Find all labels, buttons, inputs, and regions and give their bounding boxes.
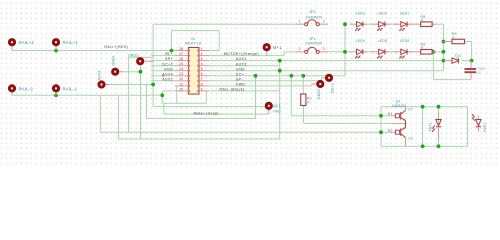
svg-text:NEXT18: NEXT18 [185,41,202,46]
led LED5 [372,39,390,58]
svg-text:GND: GND [164,67,173,71]
wire base2 [100,131,390,133]
svg-text:6: 6 [201,72,203,76]
wire inner loop pin18/pin1 [172,31,220,51]
pad RAIL+2 [11,45,13,51]
svg-text:C1: C1 [408,107,413,111]
led LED4 [350,39,368,58]
net RAIL+ [12,50,175,52]
svg-text:JUMPER: JUMPER [306,15,323,19]
svg-text:RAIL+2: RAIL+2 [19,40,35,45]
led LED6 [394,39,412,58]
svg-text:DC+: DC+ [236,72,244,76]
resistor R1 [301,94,312,106]
wire v345 [344,24,346,76]
svg-text:TNT1: TNT1 [429,122,433,132]
svg-text:1: 1 [299,20,301,24]
svg-text:12: 12 [179,77,183,81]
svg-text:7: 7 [201,77,203,81]
svg-text:RL+: RL+ [165,52,173,56]
resistor R5 [408,43,436,55]
svg-text:Mater-(Gray): Mater-(Gray) [194,111,219,115]
svg-text:RAIL+1: RAIL+1 [63,40,79,45]
svg-text:JP1: JP1 [309,37,316,41]
bottom-left verticals [99,95,101,132]
svg-text:15: 15 [179,62,183,66]
transistor Q1 [388,100,413,147]
svg-text:RAIL-(Black): RAIL-(Black) [220,88,245,92]
svg-text:LED3: LED3 [356,12,366,16]
junctions [54,49,58,53]
svg-text:1: 1 [299,47,301,51]
svg-text:FWD: FWD [236,83,245,87]
led R6R1 [472,114,487,132]
svg-text:JP2: JP2 [309,10,316,14]
wire R1 top [302,76,304,94]
svg-text:LED6: LED6 [400,39,410,43]
svg-text:RAIL-1: RAIL-1 [63,86,78,91]
svg-text:10: 10 [179,87,183,91]
svg-text:13: 13 [179,72,183,76]
svg-text:AUX4: AUX4 [162,72,173,76]
svg-text:R6R1: R6R1 [483,122,487,132]
svg-text:18: 18 [179,47,183,51]
svg-text:2: 2 [201,52,203,56]
svg-text:11: 11 [179,82,183,86]
svg-text:SP-: SP- [236,77,244,81]
svg-text:JUMPER: JUMPER [306,42,323,46]
svg-text:SP+: SP+ [165,57,173,61]
svg-text:LED4: LED4 [356,39,366,43]
svg-text:MOTOR+(Orange): MOTOR+(Orange) [224,52,259,56]
wire emitter net [304,106,394,124]
svg-text:GND2: GND2 [128,54,139,58]
resistor R6 [408,15,436,27]
pad GND1 [118,71,123,73]
net GND1 [122,57,141,139]
wire LED row gaps [364,23,396,25]
connector J1 NEXT18 [175,36,209,94]
svg-text:GND5: GND5 [317,88,321,99]
svg-text:UMA5N: UMA5N [392,104,406,108]
svg-text:17: 17 [179,52,183,56]
led TNT1 [429,112,442,140]
net RAIL- [12,91,175,95]
pad RAIL-2 [11,91,13,96]
svg-text:DC+2: DC+2 [162,62,173,66]
right row wires [209,50,219,52]
pad M+1 [266,50,268,56]
svg-text:C: C [478,71,481,75]
svg-text:2: 2 [323,47,325,51]
led LED1 [394,12,412,31]
svg-text:9: 9 [201,87,203,91]
svg-text:RAIL-2: RAIL-2 [19,86,34,91]
svg-text:LED5: LED5 [378,39,388,43]
capacitor TC1 [465,61,486,80]
svg-text:3: 3 [201,57,203,61]
led LED2 [372,12,390,31]
svg-text:4: 4 [201,62,203,66]
pad RAIL+1 [55,45,57,51]
jumper JP1 [296,37,328,54]
pad GND5 [312,83,318,85]
svg-text:AUX3: AUX3 [236,62,247,66]
wire Q1 loop [381,107,468,147]
svg-text:2: 2 [323,20,325,24]
wire left rows [151,55,175,57]
svg-text:AUX1: AUX1 [236,57,247,61]
svg-text:GND1: GND1 [111,55,115,66]
svg-text:1: 1 [201,47,203,51]
svg-text:RAIL+(RED): RAIL+(RED) [104,45,128,49]
svg-text:Q1: Q1 [396,100,401,104]
nest wires pin10 [162,95,206,103]
wire right column [434,23,444,25]
wire base1 feed [291,76,390,116]
svg-text:R: R [307,100,310,104]
wire top loop [153,23,296,25]
svg-text:AUX2: AUX2 [162,77,173,81]
svg-text:LED2: LED2 [378,12,388,16]
svg-text:14: 14 [179,67,183,71]
svg-text:GND: GND [236,67,245,71]
pad DC+1 [322,77,327,79]
net AUX2 [109,84,154,86]
svg-text:LED1: LED1 [400,12,410,16]
wire h_E [119,61,280,139]
diode TD1 [444,54,462,64]
wire h_B [153,106,266,108]
svg-text:DC+1: DC+1 [331,83,335,93]
pad GND2 [143,60,153,62]
resistor R4 [444,32,465,44]
led LED3 [350,12,368,31]
pad RAIL-1 [55,91,57,96]
svg-text:5: 5 [201,67,203,71]
jumper JP2 [296,10,328,26]
svg-text:PAD: PAD [273,109,281,113]
svg-text:16: 16 [179,57,183,61]
svg-text:AUX2: AUX2 [98,70,102,80]
wire Mater-(Gray) [164,103,269,114]
svg-text:8: 8 [201,82,203,86]
net GND2 [129,57,154,132]
svg-text:B1: B1 [388,112,393,116]
pad M-1 [268,108,270,114]
svg-text:C2: C2 [408,136,413,140]
svg-text:M+1: M+1 [273,45,282,50]
svg-text:M-1: M-1 [273,103,281,108]
pad AUX2 [104,84,109,86]
